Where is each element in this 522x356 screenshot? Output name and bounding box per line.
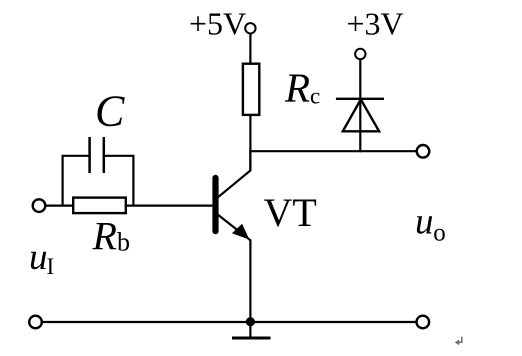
transistor VT emitter arrow xyxy=(232,224,249,240)
wire input to Rb xyxy=(46,205,73,207)
svg-text:+3V: +3V xyxy=(347,6,404,42)
svg-text:o: o xyxy=(433,220,446,247)
wire emitter down xyxy=(249,240,251,323)
wire +5V to Rc xyxy=(249,34,251,64)
transistor VT emitter lead xyxy=(217,214,250,240)
svg-text:Rb: Rb xyxy=(92,214,130,259)
svg-text:VT: VT xyxy=(264,190,317,235)
diode VD triangle xyxy=(343,99,379,131)
svg-text:C: C xyxy=(95,87,125,136)
terminal +3V xyxy=(355,49,365,59)
terminal bottom right xyxy=(417,316,430,329)
wire Rb to base xyxy=(127,205,213,207)
terminal output top xyxy=(417,145,430,158)
svg-text:I: I xyxy=(47,254,55,279)
resistor Rc xyxy=(243,64,259,115)
capacitor C right plate xyxy=(103,137,106,173)
terminal bottom left xyxy=(29,316,42,329)
junction dot xyxy=(246,317,255,326)
wire +3V to diode xyxy=(359,59,361,100)
wire Rc to collector xyxy=(249,116,251,170)
svg-text:Rc: Rc xyxy=(284,65,320,111)
diode VD cathode bar xyxy=(336,98,384,100)
transistor VT base bar xyxy=(212,178,218,231)
wire output line (collector node to output terminal) xyxy=(249,150,416,152)
ground bar xyxy=(232,337,271,340)
capacitor C left stub xyxy=(63,156,90,206)
paragraph return mark xyxy=(458,337,462,343)
terminal +5V xyxy=(245,23,255,33)
resistor Rb xyxy=(73,198,126,214)
wire bottom rail xyxy=(42,321,417,323)
svg-text:u: u xyxy=(415,202,434,243)
capacitor C right stub xyxy=(104,156,134,206)
transistor VT collector lead xyxy=(217,150,250,198)
wire diode to output line xyxy=(359,99,361,152)
svg-text:+5V: +5V xyxy=(189,6,246,42)
terminal input xyxy=(33,199,46,212)
ground stub xyxy=(249,322,251,338)
svg-text:u: u xyxy=(29,237,48,278)
capacitor C left plate xyxy=(88,137,91,173)
